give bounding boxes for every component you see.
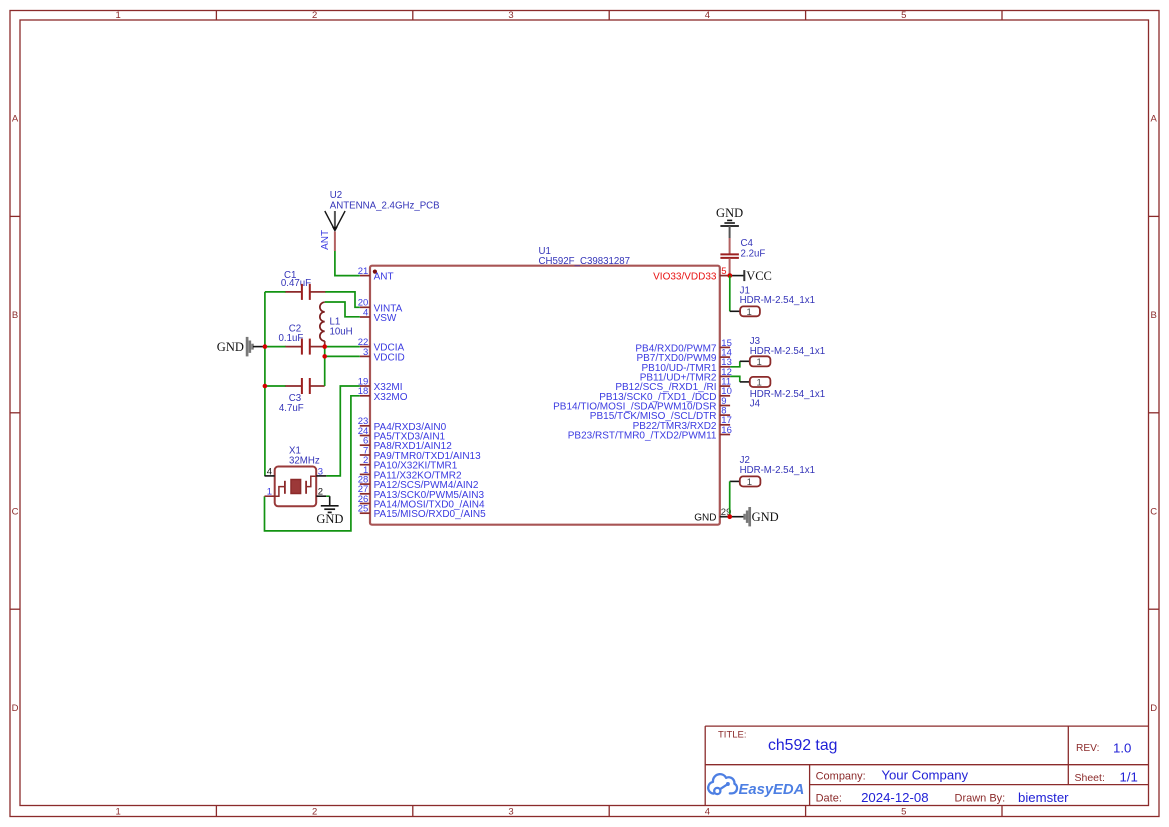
svg-text:2024-12-08: 2024-12-08 [861, 790, 928, 805]
svg-text:VIO33/VDD33: VIO33/VDD33 [653, 272, 717, 283]
svg-text:16: 16 [721, 425, 732, 436]
svg-text:1.0: 1.0 [1113, 740, 1131, 755]
wire C1 right to U1 pin 20 VINTA [325, 292, 360, 307]
crystal X1 32MHz [265, 446, 327, 507]
svg-text:1: 1 [747, 307, 752, 318]
capacitor C1 0.47uF [281, 270, 326, 300]
svg-text:C: C [1150, 507, 1157, 518]
svg-text:0.1uF: 0.1uF [279, 333, 304, 344]
svg-text:1: 1 [116, 10, 121, 21]
svg-text:HDR-M-2.54_1x1: HDR-M-2.54_1x1 [750, 389, 825, 400]
svg-text:D: D [1150, 703, 1157, 714]
U1 pin 29 GND [694, 507, 731, 524]
svg-text:Company:: Company: [816, 770, 866, 782]
junction dot VDCID branch [322, 354, 327, 359]
svg-text:X32MO: X32MO [374, 392, 408, 403]
svg-text:GND: GND [316, 512, 343, 526]
U1 pin 22 VDCIA [358, 337, 405, 354]
svg-text:Sheet:: Sheet: [1075, 772, 1105, 784]
svg-text:5: 5 [901, 10, 906, 21]
U1 pin 11 PB12-SCS_-RXD1_-RI [615, 377, 731, 394]
U1 pin 1 PA11-X32KO-TMR2 [360, 465, 462, 482]
wire branch to U1 pin 3 VDCID [325, 355, 360, 357]
U1 pin 23 PA4-RXD3-AIN0 [358, 416, 447, 433]
U1 pin 13 PB10-UD--TMR1 [641, 357, 731, 374]
wire U1 pin 13 to J3 [730, 361, 740, 367]
inductor L1 10uH [320, 302, 353, 346]
U1 pin 17 PB22-TMR3-RXD2 [633, 415, 732, 432]
wire U1 pin 19 X32MI to X1 pin 3 [326, 386, 360, 476]
U1 pin 18 X32MO [358, 386, 408, 403]
svg-text:0.47uF: 0.47uF [281, 278, 311, 289]
svg-text:1: 1 [747, 477, 752, 488]
junction dot C2-L1 node [322, 344, 327, 349]
wire antenna to U1 pin 21 [335, 251, 360, 276]
wire J2 to GND node [729, 481, 731, 516]
svg-text:GND: GND [217, 340, 244, 354]
U1 pin 5 VIO33-VDD33 [653, 266, 730, 283]
U1 pin 6 PA8-RXD1-AIN12 [360, 436, 452, 453]
wire U1 pin 12 to J4 [730, 376, 740, 382]
svg-text:CH592F_C39831287: CH592F_C39831287 [539, 256, 631, 267]
IC U1 CH592F_C39831287 [370, 246, 720, 525]
U1 pin 3 VDCID [360, 347, 405, 364]
svg-text:ANTENNA_2.4GHz_PCB: ANTENNA_2.4GHz_PCB [330, 201, 440, 212]
svg-text:4: 4 [705, 10, 710, 21]
svg-text:2.2uF: 2.2uF [741, 249, 766, 260]
header J4 HDR-M-2.54_1x1 [740, 377, 825, 409]
svg-text:Date:: Date: [816, 792, 842, 804]
svg-text:C4: C4 [741, 238, 754, 249]
svg-text:ch592 tag: ch592 tag [768, 737, 837, 754]
svg-text:B: B [12, 310, 18, 321]
svg-text:C: C [12, 507, 19, 518]
svg-text:5: 5 [721, 266, 726, 277]
svg-text:HDR-M-2.54_1x1: HDR-M-2.54_1x1 [740, 465, 815, 476]
U1 pin 9 PB14-TIO-MOSI_-SDA-PWM10-DSR [553, 396, 730, 413]
svg-text:EasyEDA: EasyEDA [739, 782, 805, 798]
svg-text:REV:: REV: [1076, 743, 1099, 754]
svg-text:VCC: VCC [746, 269, 772, 283]
capacitor C2 0.1uF [279, 324, 325, 355]
svg-text:4: 4 [705, 807, 710, 818]
svg-text:3: 3 [508, 10, 513, 21]
svg-text:10uH: 10uH [330, 326, 353, 337]
junction dot GND node [727, 514, 732, 519]
wire C3 left to trunk [265, 385, 286, 387]
U1 pin 19 X32MI [358, 376, 403, 393]
U1 pin 2 PA10-X32KI-TMR1 [360, 455, 458, 472]
U1 pin 7 PA9-TMR0-TXD1-AIN13 [360, 445, 481, 462]
U1 pin 20 VINTA [358, 298, 403, 315]
svg-text:VDCID: VDCID [374, 352, 405, 363]
svg-text:HDR-M-2.54_1x1: HDR-M-2.54_1x1 [750, 346, 825, 357]
svg-text:1: 1 [116, 807, 121, 818]
U1 pin 21 ANT [358, 266, 394, 283]
capacitor C3 4.7uF [279, 378, 325, 414]
svg-text:2: 2 [312, 807, 317, 818]
ground GND (X1 pin 2) [316, 496, 343, 526]
svg-text:A: A [12, 114, 19, 125]
U1 pin 12 PB11-UD+-TMR2 [640, 367, 732, 384]
antenna U2 ANTENNA_2.4GHz_PCB [325, 190, 440, 251]
U1 pin 27 PA13-SCK0-PWM5-AIN3 [358, 484, 485, 501]
junction dot VDD node [727, 273, 732, 278]
svg-text:2: 2 [318, 487, 323, 498]
U1 pin 10 PB13-SCK0_-TXD1_-DCD [599, 386, 732, 403]
svg-text:ANT: ANT [320, 230, 331, 250]
svg-text:1: 1 [757, 378, 762, 389]
svg-text:U2: U2 [330, 190, 342, 201]
svg-text:1: 1 [267, 487, 272, 498]
svg-text:GND: GND [752, 510, 779, 524]
power flag VCC [730, 269, 772, 283]
wire U1 pin 18 X32MO to X1 pin 1 [265, 396, 360, 531]
svg-text:J4: J4 [750, 398, 761, 409]
svg-text:TITLE:: TITLE: [718, 730, 747, 741]
svg-text:4: 4 [267, 466, 272, 477]
U1 pin 4 VSW [360, 307, 397, 324]
header J1 HDR-M-2.54_1x1 [730, 286, 815, 319]
wire left trunk C1-C2-C3-X1.4 [264, 292, 266, 476]
header J2 HDR-M-2.54_1x1 [730, 455, 815, 488]
svg-text:HDR-M-2.54_1x1: HDR-M-2.54_1x1 [740, 295, 815, 306]
svg-text:5: 5 [901, 807, 906, 818]
svg-text:25: 25 [358, 504, 369, 515]
svg-text:PB23/RST/TMR0_/TXD2/PWM11: PB23/RST/TMR0_/TXD2/PWM11 [568, 431, 717, 442]
wire C2 left to trunk [265, 346, 286, 348]
svg-text:1/1: 1/1 [1120, 769, 1138, 784]
svg-text:1: 1 [757, 357, 762, 368]
wire C1 left to trunk [265, 291, 286, 293]
svg-text:PA15/MISO/RXD0_/AIN5: PA15/MISO/RXD0_/AIN5 [374, 509, 487, 520]
U1 pin 16 PB23-RST-TMR0_-TXD2-PWM11 [568, 425, 732, 442]
svg-text:Your Company: Your Company [881, 767, 968, 782]
capacitor C4 2.2uF [720, 238, 765, 276]
svg-text:3: 3 [363, 347, 368, 358]
ground GND (top, above C4) [716, 206, 743, 238]
ground GND flag (right, at U1 pin 29) [745, 507, 779, 526]
header J3 HDR-M-2.54_1x1 [740, 336, 825, 368]
svg-text:A: A [1151, 114, 1158, 125]
U1 pin 28 PA12-SCS-PWM4-AIN2 [358, 475, 479, 492]
wire VDD node to J1 [729, 276, 731, 312]
U1 pin 8 PB15-TCK-MISO_-SCL-DTR [590, 406, 730, 423]
svg-text:D: D [12, 703, 19, 714]
svg-text:B: B [1151, 310, 1157, 321]
wire C2 right to U1 pin 22 VDCIA [325, 346, 360, 348]
svg-text:VSW: VSW [374, 313, 397, 324]
svg-text:ANT: ANT [374, 272, 394, 283]
junction dot trunk-C3 [263, 384, 268, 389]
wire U1 pin 29 to ground flag [730, 516, 744, 518]
U1 pin 25 PA15-MISO-RXD0_-AIN5 [358, 504, 486, 521]
svg-text:Drawn By:: Drawn By: [955, 792, 1006, 804]
ground GND flag (left, at C2) [217, 337, 265, 357]
svg-text:32MHz: 32MHz [289, 456, 320, 467]
U1 pin 24 PA5-TXD3-AIN1 [358, 426, 446, 443]
svg-text:3: 3 [508, 807, 513, 818]
wire L1 top to U1 pin 4 VSW [325, 302, 360, 317]
svg-text:2: 2 [312, 10, 317, 21]
svg-text:4: 4 [363, 307, 368, 318]
svg-text:GND: GND [694, 513, 716, 524]
svg-text:GND: GND [716, 206, 743, 220]
svg-text:4.7uF: 4.7uF [279, 403, 304, 414]
U1 pin 26 PA14-MOSI-TXD0_-AIN4 [358, 494, 485, 511]
svg-text:biemster: biemster [1018, 790, 1069, 805]
U1 pin 15 PB4-RXD0-PWM7 [635, 338, 732, 355]
U1 pin 14 PB7-TXD0-PWM9 [636, 348, 731, 365]
wire C2/C3 right vertical [324, 347, 326, 386]
junction dot trunk-C2 [263, 344, 268, 349]
svg-text:3: 3 [318, 466, 323, 477]
